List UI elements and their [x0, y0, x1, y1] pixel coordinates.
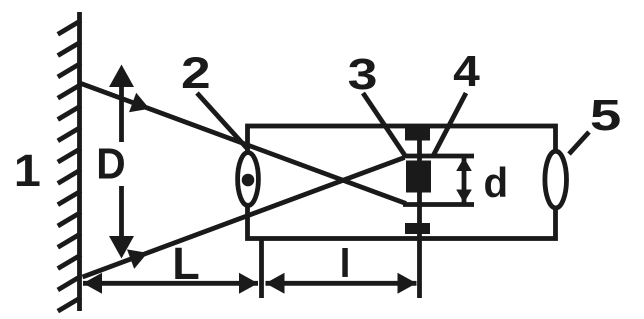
L dimension shaft	[83, 281, 258, 286]
aperture vertical line	[417, 126, 422, 298]
D arrow bottom head	[109, 236, 134, 259]
d lower extension line	[403, 202, 474, 207]
d upper extension line	[403, 154, 474, 159]
svg-text:l: l	[339, 242, 350, 286]
aperture top block	[405, 128, 430, 141]
svg-text:D: D	[96, 139, 125, 188]
svg-text:5: 5	[590, 90, 621, 140]
l left tick	[259, 240, 264, 298]
label 3 pointer	[363, 93, 406, 157]
d arrow top head	[456, 158, 472, 172]
svg-text:3: 3	[348, 50, 378, 98]
l arrow left head	[266, 273, 285, 294]
D dimension shaft	[119, 84, 124, 142]
ray 1 arrowhead	[129, 93, 150, 113]
svg-text:2: 2	[181, 49, 211, 98]
wall hatching	[58, 21, 81, 312]
box enclosure	[248, 126, 556, 239]
label 4 pointer	[433, 93, 467, 157]
ray 2 arrowhead	[127, 249, 148, 269]
L arrow right head	[239, 273, 258, 294]
D arrow top head	[109, 65, 134, 88]
svg-text:L: L	[172, 238, 200, 289]
l dimension shaft	[266, 281, 417, 286]
ray 2 (wall bottom to upper slit)	[83, 158, 405, 278]
L arrow left head	[83, 273, 102, 294]
lens 2 center dot	[242, 174, 255, 187]
lens 5 ellipse	[545, 151, 567, 208]
wall line	[77, 12, 82, 311]
lens 2 ellipse	[238, 153, 259, 206]
svg-text:4: 4	[453, 46, 480, 96]
label 5 pointer	[569, 132, 589, 154]
d arrow bottom head	[456, 190, 472, 204]
svg-text:1: 1	[14, 146, 41, 196]
label 2 pointer	[197, 93, 249, 150]
l arrow right head	[398, 273, 417, 294]
svg-text:d: d	[483, 159, 508, 206]
ray 1 (wall top to lower slit)	[81, 84, 406, 204]
aperture middle block	[406, 161, 431, 193]
d dimension shaft	[462, 158, 467, 203]
aperture bottom block	[405, 223, 430, 234]
